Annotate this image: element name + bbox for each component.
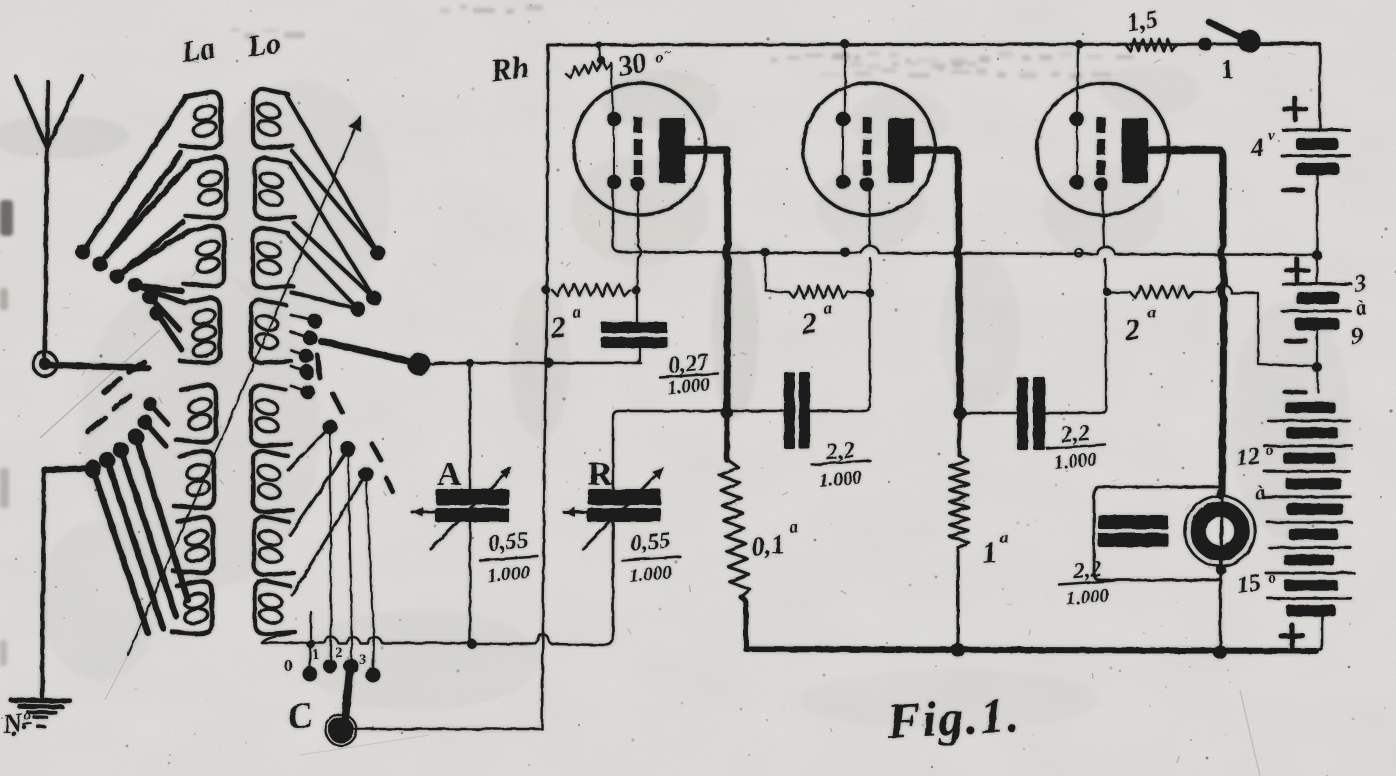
svg-text:o: o (1266, 443, 1274, 459)
svg-text:15: 15 (1235, 570, 1262, 599)
svg-text:o: o (24, 709, 31, 724)
svg-text:1.000: 1.000 (486, 562, 531, 587)
svg-text:30: 30 (615, 48, 649, 84)
svg-text:Fig.1.: Fig.1. (885, 686, 1023, 749)
svg-text:0,1: 0,1 (749, 529, 786, 562)
svg-text:o: o (1268, 570, 1276, 586)
svg-text:A: A (437, 456, 462, 493)
svg-text:3: 3 (359, 652, 367, 668)
svg-text:1.000: 1.000 (666, 374, 711, 399)
svg-text:2,2: 2,2 (1059, 420, 1091, 447)
svg-text:R: R (588, 456, 613, 493)
svg-text:La: La (178, 32, 217, 69)
svg-text:1.000: 1.000 (1065, 585, 1110, 610)
svg-text:0: 0 (284, 656, 293, 675)
svg-text:Lo: Lo (244, 27, 283, 64)
svg-text:1.000: 1.000 (818, 467, 863, 492)
svg-text:1.000: 1.000 (628, 562, 673, 587)
svg-text:v: v (1268, 128, 1275, 144)
svg-text:1.000: 1.000 (1053, 449, 1098, 474)
svg-text:o: o (655, 49, 663, 66)
svg-text:0,55: 0,55 (629, 527, 671, 555)
svg-text:1: 1 (312, 647, 320, 663)
svg-text:0,55: 0,55 (487, 527, 529, 555)
svg-text:Rh: Rh (488, 49, 530, 88)
svg-text:2: 2 (335, 645, 343, 661)
svg-text:12: 12 (1234, 443, 1261, 472)
svg-text:~: ~ (664, 46, 672, 61)
svg-text:1,5: 1,5 (1125, 6, 1160, 37)
svg-text:2,2: 2,2 (824, 437, 856, 464)
svg-text:1: 1 (1221, 55, 1234, 84)
